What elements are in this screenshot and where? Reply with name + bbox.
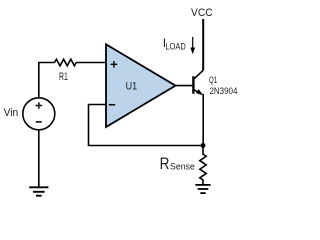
resistor RSense — [200, 146, 206, 185]
wire Vin top to R1 — [39, 63, 55, 99]
node junction dot — [201, 143, 206, 148]
voltage source Vin — [23, 98, 55, 130]
ground under RSense — [195, 184, 210, 186]
svg-text:Vin: Vin — [4, 107, 19, 119]
svg-text:2N3904: 2N3904 — [210, 86, 238, 96]
transistor Q1 emitter diagonal with arrow — [193, 89, 201, 94]
Vin plus mark — [36, 102, 43, 109]
wire VCC down to collector — [202, 19, 204, 70]
wire R1 to op-amp + input — [76, 62, 106, 64]
transistor Q1 base bar — [192, 76, 194, 93]
arrow I_LOAD — [192, 37, 194, 50]
transistor Q1 collector diagonal — [193, 70, 203, 79]
resistor R1 — [55, 59, 77, 66]
Vin minus mark — [36, 121, 42, 123]
svg-text:R: R — [160, 154, 170, 173]
svg-text:R1: R1 — [59, 71, 68, 83]
op-amp plus input mark — [111, 61, 118, 68]
ground under Vin — [29, 186, 48, 188]
wire emitter down to sense node — [202, 94, 204, 146]
wire Vin bottom to ground — [38, 129, 40, 187]
svg-text:VCC: VCC — [191, 7, 213, 19]
svg-text:Q1: Q1 — [209, 75, 217, 85]
wire feedback: minus input left, down, right to sense node — [89, 105, 204, 146]
op-amp U1 — [106, 44, 176, 127]
svg-text:U1: U1 — [126, 80, 138, 92]
op-amp minus input mark — [109, 104, 115, 106]
svg-text:Sense: Sense — [170, 162, 195, 172]
svg-text:LOAD: LOAD — [165, 41, 186, 52]
wire op-amp output to transistor base — [176, 85, 193, 87]
